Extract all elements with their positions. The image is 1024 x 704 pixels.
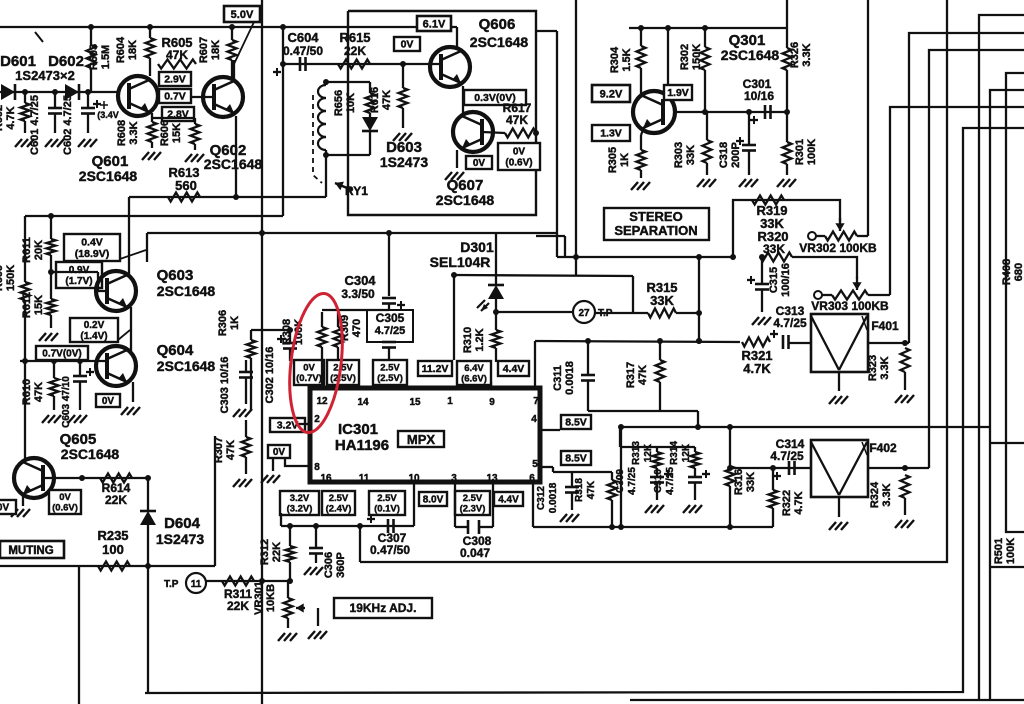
- ground C603: [68, 415, 87, 423]
- svg-text:C310: C310: [653, 469, 664, 493]
- label C314 4.7/25: [770, 437, 804, 463]
- svg-text:3.3K: 3.3K: [879, 356, 891, 379]
- capacitor C604: [273, 57, 306, 76]
- svg-text:10KB: 10KB: [265, 584, 277, 612]
- voltage 0.3V(0V): [464, 90, 526, 105]
- svg-text:1K: 1K: [229, 316, 241, 330]
- label Q602: [210, 142, 247, 159]
- svg-text:4.7/25: 4.7/25: [665, 467, 676, 495]
- svg-text:R322: R322: [781, 490, 793, 516]
- label C306 360P: [323, 552, 347, 578]
- wire Q607 collector up: [462, 115, 463, 117]
- voltage 2.5V(2.4V) pin11b: [322, 491, 355, 515]
- svg-text:0V: 0V: [59, 492, 71, 503]
- wire RY1 bottom: [323, 150, 370, 197]
- capacitor C313: [770, 330, 789, 349]
- label Q606: [479, 16, 516, 33]
- ground R301: [777, 179, 796, 187]
- label R605 47K: [161, 35, 192, 62]
- voltage 0V Q606 base: [394, 37, 420, 51]
- label R306 1K: [217, 310, 241, 336]
- resistor R304: [637, 28, 646, 94]
- svg-text:VR302 100KB: VR302 100KB: [799, 241, 877, 255]
- ground C303: [233, 409, 252, 417]
- svg-text:2.5V: 2.5V: [333, 363, 353, 374]
- ground C309: [645, 505, 664, 513]
- svg-text:C601 4.7/25: C601 4.7/25: [29, 95, 41, 155]
- label 1S2473x2: [15, 68, 75, 83]
- voltage 0V Q604: [96, 394, 120, 407]
- svg-text:R324: R324: [869, 481, 881, 508]
- label R301 100K: [794, 139, 818, 165]
- wire D604 to muting: [145, 525, 151, 569]
- svg-text:0.47/50: 0.47/50: [370, 543, 410, 557]
- svg-text:STEREO: STEREO: [629, 209, 682, 224]
- svg-text:12K: 12K: [681, 443, 692, 462]
- wire bus y233: [147, 233, 557, 262]
- label R616 47K: [369, 87, 393, 113]
- voltage 0.7V: [159, 89, 191, 103]
- svg-text:R603: R603: [88, 44, 100, 70]
- voltage 0.7V(0V): [36, 346, 88, 360]
- voltage 4.4V pin7: [498, 361, 529, 376]
- wire x633 to R315: [632, 276, 634, 313]
- svg-text:(1.7V): (1.7V): [65, 276, 92, 287]
- svg-text:4.7/25: 4.7/25: [773, 316, 807, 330]
- diode D604: [140, 511, 156, 525]
- label R320 33K: [757, 229, 788, 256]
- relay RY1 dashed line: [313, 95, 322, 183]
- svg-text:(2.3V): (2.3V): [460, 504, 486, 515]
- svg-text:C604: C604: [287, 30, 319, 45]
- svg-text:MPX: MPX: [407, 432, 436, 447]
- svg-text:SEPARATION: SEPARATION: [614, 223, 697, 238]
- svg-text:R615: R615: [339, 30, 370, 45]
- svg-text:1.5M: 1.5M: [100, 45, 112, 69]
- wire bus V3 x909: [909, 33, 1024, 343]
- svg-text:1.3V: 1.3V: [600, 128, 622, 140]
- capacitor C601: [48, 92, 62, 133]
- label Q606 part: [470, 34, 529, 50]
- svg-text:R607: R607: [198, 37, 210, 63]
- svg-text:IC301: IC301: [338, 421, 378, 438]
- ground R606: [185, 154, 204, 162]
- resistor R316: [726, 427, 735, 527]
- voltage 8.0V pin10: [419, 492, 447, 506]
- label R303 33K: [673, 142, 697, 168]
- svg-text:R610: R610: [21, 379, 33, 405]
- svg-text:R323: R323: [867, 355, 879, 381]
- label C301 10/16: [743, 77, 775, 103]
- svg-text:(0.1V): (0.1V): [374, 504, 400, 515]
- svg-text:4.7K: 4.7K: [743, 361, 771, 376]
- resistor R326: [783, 0, 792, 112]
- label 3.4V: [97, 101, 119, 120]
- svg-text:4.7/25: 4.7/25: [770, 449, 804, 463]
- wire Q301 collector: [667, 28, 669, 94]
- svg-text:0.2V: 0.2V: [84, 320, 105, 331]
- svg-text:0.9V: 0.9V: [69, 265, 90, 276]
- ground R303: [697, 179, 716, 187]
- ground R323: [895, 395, 914, 403]
- label R606 15K: [159, 120, 183, 146]
- label D301: [460, 239, 494, 255]
- label R604 18K: [115, 36, 139, 63]
- wire y232 to LED: [495, 233, 497, 285]
- label VR302 100KB: [799, 241, 877, 255]
- wire long vertical x262: [261, 0, 263, 704]
- label Q301 part: [721, 47, 780, 63]
- svg-text:200P: 200P: [730, 142, 742, 168]
- svg-text:C311: C311: [552, 365, 564, 391]
- resistor R314: [691, 447, 700, 477]
- voltage 11.2V pin1: [418, 361, 452, 376]
- svg-text:33K: 33K: [763, 242, 785, 256]
- resistor R322: [769, 465, 778, 527]
- wire Q604 emitter: [132, 382, 134, 402]
- voltage 2.5V(2.5V) pin14: [327, 360, 359, 385]
- wire Q606 frame: [348, 11, 536, 215]
- wire bus V9 x1006: [1006, 73, 1024, 532]
- wire R609 to Q605: [24, 361, 26, 462]
- svg-text:R306: R306: [217, 310, 229, 336]
- label C302 10/16: [264, 347, 276, 404]
- label R318 47K: [574, 478, 597, 502]
- svg-text:(2.4V): (2.4V): [326, 504, 352, 515]
- label RY1 arrow: [335, 182, 368, 198]
- svg-text:47K: 47K: [225, 440, 237, 460]
- wire x360 drop: [359, 526, 361, 562]
- wire C313 to F401: [789, 342, 811, 344]
- svg-text:Q603: Q603: [157, 267, 194, 284]
- svg-text:R604: R604: [115, 36, 127, 63]
- svg-text:3.2V: 3.2V: [290, 493, 310, 504]
- svg-text:2.9V: 2.9V: [164, 74, 186, 86]
- svg-text:0V: 0V: [401, 39, 414, 51]
- svg-text:5: 5: [532, 459, 538, 470]
- wire pin12 column: [321, 361, 323, 388]
- svg-text:100/16: 100/16: [780, 263, 792, 297]
- node junction dots on +V bus: [88, 24, 286, 30]
- svg-text:0.47/50: 0.47/50: [283, 44, 323, 58]
- label Q603: [157, 267, 216, 299]
- label R324 3.3K: [869, 481, 893, 508]
- resistor R614: [100, 474, 132, 483]
- label C603 47/10: [61, 376, 72, 428]
- svg-text:16: 16: [320, 473, 332, 484]
- label C308 0.047: [460, 534, 492, 560]
- svg-text:R305: R305: [607, 147, 619, 173]
- wire Q601 emitter to R608: [151, 113, 153, 122]
- svg-text:2: 2: [314, 414, 320, 425]
- box 19KHz ADJ: [334, 598, 432, 618]
- wire LED node: [493, 299, 499, 315]
- wire Q603 emitter to Q604: [130, 307, 132, 351]
- wire y411: [588, 411, 698, 427]
- svg-text:MUTING: MUTING: [8, 545, 53, 557]
- svg-text:R606: R606: [159, 120, 171, 146]
- svg-text:4.7K: 4.7K: [793, 491, 805, 514]
- pin 2 number: [314, 414, 320, 425]
- resistor R306: [247, 330, 256, 410]
- svg-text:3.3K: 3.3K: [801, 43, 813, 66]
- node dot x262: [259, 230, 265, 236]
- label F402: [869, 441, 897, 455]
- svg-text:11.2V: 11.2V: [422, 363, 449, 375]
- resistor R613: [168, 193, 200, 202]
- svg-text:0.4V: 0.4V: [81, 236, 103, 248]
- mark tick top-left: [35, 32, 43, 42]
- label F401: [871, 319, 899, 333]
- wire Q605 collector line: [43, 475, 148, 481]
- resistor R315: [648, 309, 676, 318]
- label R614 22K: [102, 481, 131, 507]
- wire C303 top: [245, 330, 247, 372]
- svg-text:R316: R316: [733, 469, 745, 495]
- pin 13 number: [486, 473, 498, 484]
- label C303 10/16: [219, 357, 231, 414]
- svg-text:4.4V: 4.4V: [503, 363, 525, 375]
- capacitor C305: [382, 301, 405, 361]
- wire x621 vertical: [620, 427, 622, 527]
- wire x557 bus: [536, 31, 557, 257]
- ground pin8: [261, 458, 280, 483]
- svg-text:C318: C318: [718, 142, 730, 168]
- resistor R310: [491, 312, 501, 388]
- voltage 8.5V pin5: [561, 451, 591, 465]
- transistor Q605: [14, 458, 54, 498]
- pin 9 number: [489, 397, 495, 408]
- label R323 3.3K: [867, 355, 891, 381]
- diode D601: [1, 84, 15, 100]
- svg-text:RY1: RY1: [345, 184, 368, 198]
- capacitor C301: [750, 105, 771, 124]
- svg-text:(6.6V): (6.6V): [461, 374, 487, 385]
- wire bus V5 x947: [360, 0, 947, 562]
- ground R307: [233, 479, 252, 487]
- capacitor C304: [382, 280, 396, 310]
- wire D604 column: [145, 475, 151, 510]
- svg-text:0V: 0V: [473, 158, 486, 169]
- svg-text:33K: 33K: [650, 293, 674, 308]
- svg-text:560: 560: [175, 178, 197, 193]
- ground C602: [78, 139, 97, 147]
- svg-text:100: 100: [102, 542, 124, 557]
- resistor R302: [701, 28, 710, 112]
- svg-text:(0.6V): (0.6V): [52, 503, 78, 514]
- capacitor C315: [747, 254, 769, 312]
- resistor R321: [742, 338, 770, 347]
- label R319 33K: [756, 203, 787, 231]
- svg-text:C305: C305: [376, 311, 405, 325]
- svg-text:360P: 360P: [335, 552, 347, 578]
- capacitor C306: [309, 526, 323, 563]
- label Q607: [447, 177, 484, 194]
- svg-text:Q606: Q606: [479, 16, 516, 33]
- label Q601 part: [79, 168, 138, 184]
- svg-text:R616: R616: [369, 87, 381, 113]
- wire y341 R321 line: [535, 338, 740, 388]
- label C604 0.47/50: [283, 30, 323, 58]
- svg-text:9.2V: 9.2V: [600, 88, 623, 100]
- pin 11 number: [359, 473, 370, 484]
- transistor Q606: [430, 47, 470, 87]
- svg-text:0.0018: 0.0018: [564, 361, 576, 395]
- pin 3 number: [451, 473, 457, 484]
- red annotation ellipse: [283, 290, 350, 435]
- svg-text:2SC1648: 2SC1648: [204, 156, 263, 172]
- svg-text:0.047: 0.047: [460, 546, 490, 560]
- svg-text:T.P: T.P: [598, 308, 613, 319]
- label R609 150K: [0, 265, 17, 291]
- svg-text:9: 9: [489, 397, 495, 408]
- wire base bus y361: [20, 358, 107, 364]
- svg-text:10K: 10K: [345, 93, 357, 113]
- label R316 33K: [733, 469, 757, 495]
- wire Q603 base: [51, 272, 107, 291]
- svg-text:R326: R326: [789, 42, 801, 68]
- voltage 6.1V: [417, 16, 451, 31]
- svg-text:47K: 47K: [33, 382, 45, 402]
- svg-text:2SC1648: 2SC1648: [157, 358, 216, 374]
- svg-text:(3.4V: (3.4V: [97, 110, 119, 120]
- svg-text:1S2473×2: 1S2473×2: [15, 68, 75, 83]
- svg-text:R612: R612: [21, 292, 33, 318]
- resistor R610: [50, 361, 59, 410]
- wire pin1 column: [451, 272, 457, 360]
- transistor Q301: [633, 91, 675, 133]
- ground R616: [393, 133, 412, 141]
- resistor R606: [191, 124, 200, 150]
- wire x79 vertical: [78, 566, 80, 704]
- voltage 8.5V pin4: [561, 415, 591, 429]
- wire D604 bottom: [147, 566, 149, 693]
- svg-text:47K: 47K: [381, 90, 393, 110]
- wire bus V8 x990: [990, 90, 1024, 700]
- capacitor C308: [468, 520, 479, 534]
- svg-text:0.7V(0V): 0.7V(0V): [42, 349, 81, 360]
- svg-text:2SC1648: 2SC1648: [157, 283, 216, 299]
- svg-text:15K: 15K: [171, 123, 183, 143]
- label R315 33K: [646, 280, 677, 308]
- capacitor C311: [581, 341, 595, 411]
- filter F401: [811, 314, 868, 372]
- box MUTING: [0, 541, 64, 558]
- svg-text:12K: 12K: [643, 443, 654, 462]
- pin 6 number: [529, 473, 535, 484]
- wire pin16 column: [280, 513, 282, 526]
- wire Q607 base line: [482, 132, 537, 133]
- resistor R324: [901, 475, 910, 515]
- svg-text:C602 4.7/25: C602 4.7/25: [62, 95, 74, 155]
- svg-text:0V: 0V: [513, 147, 526, 158]
- wire R501 box bottom: [990, 566, 1024, 568]
- svg-text:R302: R302: [679, 44, 691, 70]
- resistor R305: [637, 130, 646, 178]
- svg-text:8.5V: 8.5V: [565, 453, 587, 465]
- resistor R308: [318, 312, 327, 361]
- svg-text:2SC1648: 2SC1648: [436, 192, 495, 208]
- resistor R616: [399, 61, 408, 128]
- svg-text:0V: 0V: [0, 503, 9, 514]
- wire F401 ground: [838, 371, 840, 391]
- svg-text:C312: C312: [536, 486, 547, 510]
- svg-text:R408: R408: [1001, 259, 1013, 285]
- svg-text:680: 680: [1013, 263, 1024, 281]
- svg-text:19KHz ADJ.: 19KHz ADJ.: [350, 601, 417, 615]
- svg-text:11: 11: [191, 579, 202, 590]
- svg-text:C306: C306: [323, 552, 335, 578]
- voltage 0V(0.6V) Q605: [49, 490, 81, 514]
- svg-text:27: 27: [578, 308, 590, 319]
- svg-text:4.7/25: 4.7/25: [627, 467, 638, 495]
- box C305 loop: [367, 310, 413, 342]
- label R310 1.2K: [462, 327, 486, 353]
- svg-text:4.7/25: 4.7/25: [375, 325, 406, 337]
- svg-text:R304: R304: [609, 46, 621, 73]
- label IC301: [338, 421, 378, 438]
- label C315 100/16: [768, 263, 792, 297]
- svg-text:22K: 22K: [271, 542, 283, 562]
- wire pin2 stub: [298, 423, 310, 425]
- ground F402: [829, 522, 848, 530]
- svg-text:13: 13: [486, 473, 498, 484]
- wire Q602 collector: [233, 60, 235, 81]
- label R613 560: [168, 165, 199, 193]
- wire RY1 top: [323, 79, 370, 85]
- resistor R320: [760, 253, 792, 262]
- resistor R615: [338, 60, 370, 69]
- wire F402 ground: [838, 497, 840, 517]
- svg-text:1.5K: 1.5K: [621, 48, 633, 71]
- transistor Q601: [118, 76, 158, 116]
- svg-text:4.4V: 4.4V: [498, 495, 519, 506]
- wire bus V6 x963: [145, 128, 1024, 693]
- svg-text:2SC1648: 2SC1648: [721, 47, 780, 63]
- svg-text:F402: F402: [869, 441, 897, 455]
- voltage 2.5V(0.1V) pin11: [369, 491, 405, 515]
- wire emitter node to R606: [152, 118, 195, 124]
- voltage 0.4V(18.9V): [64, 234, 146, 261]
- voltage 1.9V: [664, 85, 692, 100]
- resistor R604: [146, 27, 155, 76]
- label R312 22K: [259, 539, 283, 565]
- svg-text:6.4V: 6.4V: [464, 363, 484, 374]
- svg-text:6: 6: [529, 473, 535, 484]
- label R408: [1001, 259, 1024, 285]
- label C310 4.7/25: [653, 467, 676, 495]
- ground C315: [752, 317, 771, 325]
- voltage 6.4V(6.6V) pin9: [457, 361, 491, 385]
- label R611 20K: [21, 237, 45, 263]
- wire TP11 line: [206, 578, 293, 584]
- label C304 3.3/50: [341, 273, 376, 301]
- voltage 0V Q607: [466, 156, 492, 169]
- label R617 47K: [503, 101, 532, 127]
- svg-text:47K: 47K: [586, 480, 597, 499]
- label D601: [0, 53, 36, 70]
- wire F402 right: [868, 465, 929, 471]
- ground R610: [42, 415, 61, 423]
- resistor R318: [608, 472, 617, 527]
- wire pin14 column: [341, 361, 389, 388]
- testpoint TP11: [164, 573, 206, 593]
- resistor R617: [505, 129, 536, 138]
- capacitor C302: [277, 327, 297, 361]
- svg-text:4.7K: 4.7K: [5, 106, 17, 129]
- wire input line: [0, 91, 118, 93]
- svg-text:0.0018: 0.0018: [548, 482, 559, 513]
